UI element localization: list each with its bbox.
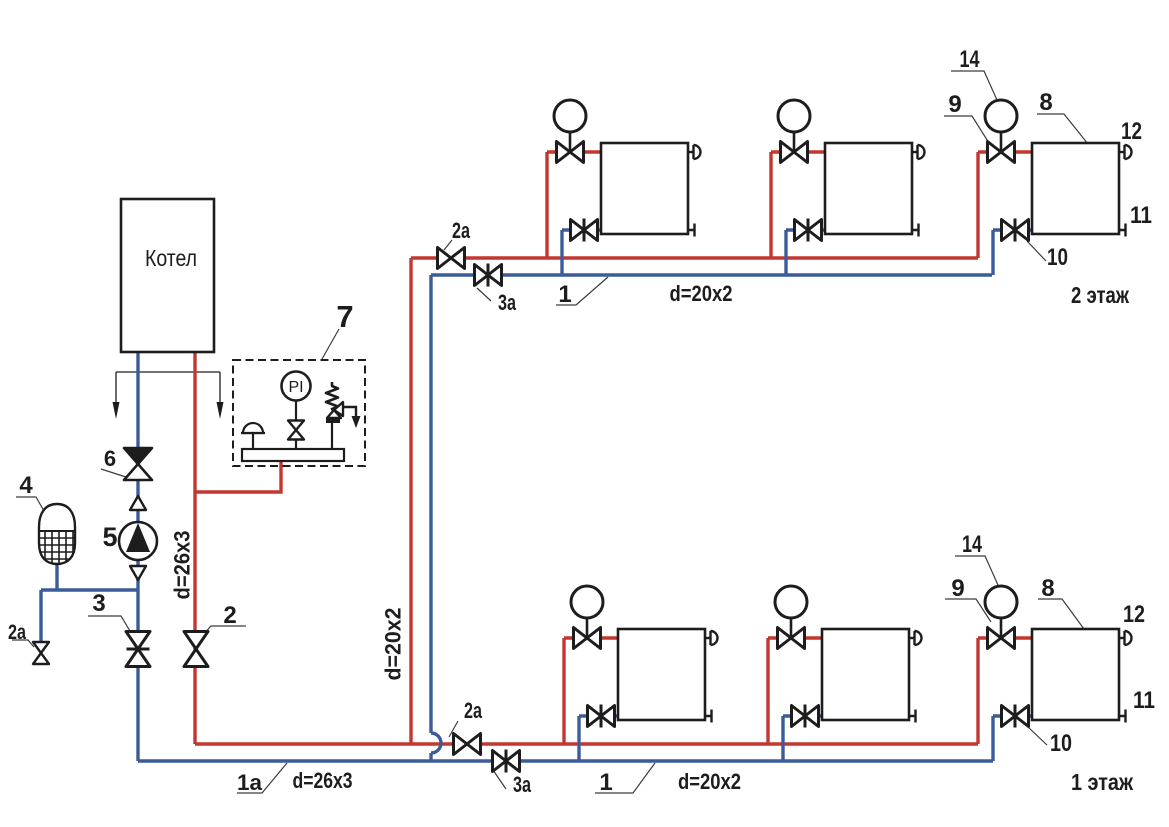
svg-text:8: 8 xyxy=(1039,89,1052,116)
svg-text:Котел: Котел xyxy=(145,245,197,271)
svg-text:d=20x2: d=20x2 xyxy=(670,281,733,306)
svg-text:d=20x2: d=20x2 xyxy=(381,608,406,681)
svg-text:10: 10 xyxy=(1047,244,1068,271)
svg-text:2а: 2а xyxy=(464,698,483,723)
svg-text:1 этаж: 1 этаж xyxy=(1071,769,1134,795)
svg-text:11: 11 xyxy=(1133,687,1155,714)
svg-text:3а: 3а xyxy=(498,290,517,315)
svg-text:14: 14 xyxy=(960,46,980,73)
svg-text:d=26x3: d=26x3 xyxy=(170,531,195,600)
svg-text:7: 7 xyxy=(336,299,353,334)
svg-text:3: 3 xyxy=(92,590,105,617)
svg-text:12: 12 xyxy=(1123,601,1145,628)
svg-text:1: 1 xyxy=(599,769,612,796)
svg-text:8: 8 xyxy=(1041,575,1054,602)
svg-text:9: 9 xyxy=(951,575,964,602)
svg-text:9: 9 xyxy=(948,91,961,118)
svg-text:PI: PI xyxy=(288,379,303,396)
svg-text:14: 14 xyxy=(962,531,982,558)
svg-text:5: 5 xyxy=(102,522,117,552)
svg-text:6: 6 xyxy=(104,446,116,471)
svg-text:4: 4 xyxy=(19,472,33,499)
svg-text:1а: 1а xyxy=(237,770,263,795)
svg-text:12: 12 xyxy=(1121,118,1142,145)
svg-text:2 этаж: 2 этаж xyxy=(1071,282,1130,308)
svg-text:1: 1 xyxy=(558,281,571,308)
svg-text:2а: 2а xyxy=(8,621,26,644)
svg-text:d=26x3: d=26x3 xyxy=(293,768,353,793)
svg-text:d=20x2: d=20x2 xyxy=(678,769,741,794)
svg-text:2а: 2а xyxy=(452,218,471,243)
svg-text:3а: 3а xyxy=(513,772,532,797)
svg-text:11: 11 xyxy=(1130,202,1152,229)
svg-text:2: 2 xyxy=(223,602,236,629)
svg-text:10: 10 xyxy=(1050,730,1072,757)
